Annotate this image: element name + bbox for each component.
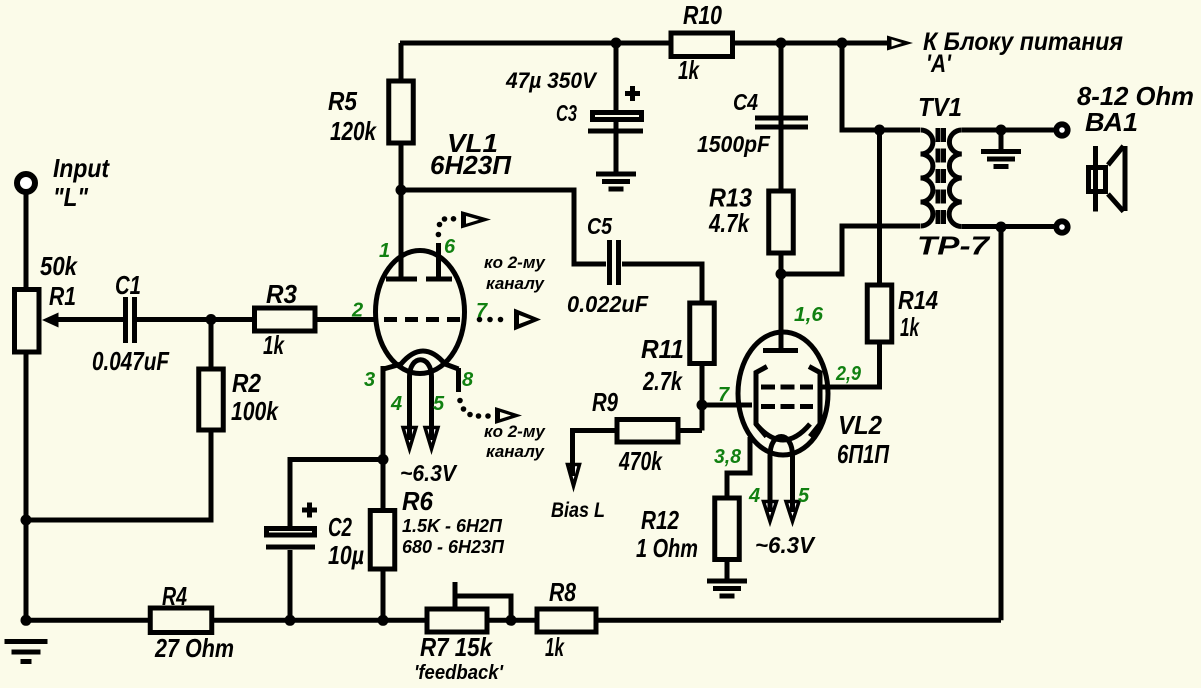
node ground left	[21, 615, 32, 626]
resistor R6	[370, 511, 395, 570]
node rail-C4	[776, 38, 787, 49]
svg-text:7: 7	[718, 384, 730, 406]
VL1 heater arrow pin5	[425, 428, 438, 450]
VL1 heater bump	[410, 360, 432, 377]
VL1 pin8 dots	[457, 398, 491, 419]
transformer TV1 primary winding	[921, 130, 933, 226]
svg-text:1k: 1k	[263, 330, 285, 360]
svg-text:470k: 470k	[618, 446, 663, 476]
VL2 heater bump	[770, 437, 793, 457]
VL2 cathode	[756, 424, 810, 440]
svg-text:100k: 100k	[231, 396, 279, 426]
resistor R7 trimmer body	[427, 609, 487, 632]
capacitor C1 plates	[126, 297, 135, 343]
node secondary top ground	[996, 125, 1007, 136]
transformer TV1 core dashed lines	[938, 128, 944, 228]
svg-text:27 Ohm: 27 Ohm	[154, 633, 234, 663]
speaker terminal top	[1056, 124, 1067, 135]
svg-text:7: 7	[476, 300, 488, 322]
wire R12 to ground	[725, 559, 730, 580]
wire feedback vertical	[999, 227, 1004, 620]
svg-text:~6.3V: ~6.3V	[400, 460, 458, 486]
svg-text:1k: 1k	[545, 632, 565, 662]
VL1 grid exit arrow to 2nd channel	[514, 309, 541, 331]
svg-text:R1: R1	[49, 281, 76, 311]
resistor R3	[255, 308, 316, 331]
speaker BA1 horn	[1108, 146, 1125, 212]
svg-text:VL2: VL2	[838, 410, 882, 440]
svg-text:50k: 50k	[40, 251, 78, 281]
wire input to R1 to ground	[24, 193, 29, 620]
wire VL2 anode feed	[779, 274, 784, 350]
VL1 cathode	[384, 351, 459, 369]
ground below C3	[596, 174, 636, 189]
svg-text:R9: R9	[592, 387, 618, 417]
tube VL1 envelope	[376, 251, 465, 374]
wire rail to primary top	[842, 43, 920, 130]
wire R14 top	[877, 130, 882, 283]
svg-text:2: 2	[351, 300, 363, 322]
svg-text:1: 1	[379, 240, 390, 262]
node C2 bottom	[285, 615, 296, 626]
node VL1 anode	[396, 185, 407, 196]
VL1 pin6 dots	[436, 216, 457, 237]
node VL2 grid	[697, 400, 708, 411]
svg-text:R10: R10	[683, 0, 722, 30]
resistor R9	[617, 420, 678, 443]
VL1 grid exit dots	[477, 317, 504, 323]
VL1 grid dashed line	[384, 317, 463, 322]
node secondary bottom feedback	[996, 222, 1007, 233]
VL2 control grid dashes row2	[761, 404, 813, 409]
ground secondary top	[981, 152, 1021, 167]
svg-text:3: 3	[364, 369, 375, 391]
VL2 heater pin5 shaft	[790, 456, 795, 511]
svg-text:4: 4	[390, 393, 402, 415]
wire secondary top to terminal	[962, 128, 1055, 133]
VL1 heater pin5 shaft	[429, 377, 434, 440]
svg-text:Input: Input	[53, 153, 110, 183]
resistor R10	[671, 33, 733, 57]
wire VL1 pin3 cathode down	[381, 366, 386, 460]
svg-text:R5: R5	[328, 86, 357, 116]
svg-text:2,9: 2,9	[835, 363, 862, 385]
VL1 anode plate pin1	[386, 277, 417, 282]
VL2 anode plate	[763, 348, 798, 353]
capacitor C2 bottom plate	[266, 545, 315, 550]
svg-text:120k: 120k	[330, 116, 377, 146]
svg-text:4.7k: 4.7k	[708, 208, 750, 238]
bias arrow	[568, 465, 580, 487]
node rail-TV1	[837, 38, 848, 49]
speaker BA1 box	[1089, 168, 1106, 192]
svg-text:1500pF: 1500pF	[697, 131, 771, 157]
VL1 heater pin4 shaft	[407, 377, 412, 440]
svg-text:3,8: 3,8	[714, 446, 742, 468]
capacitor C2 polarized top plate	[267, 529, 315, 536]
svg-text:10µ: 10µ	[328, 540, 364, 570]
wire secondary bottom to terminal	[962, 224, 1055, 229]
node rail-C3	[611, 38, 622, 49]
svg-text:К Блоку питания: К Блоку питания	[923, 28, 1123, 56]
wire VL1 pin6 anode	[436, 243, 441, 279]
svg-text:8: 8	[462, 369, 474, 391]
wire R13 junction to primary bottom	[781, 226, 920, 274]
input terminal circle	[17, 174, 35, 192]
VL1 heater shaft tips inside arrows	[410, 427, 432, 440]
svg-text:~6.3V: ~6.3V	[755, 532, 816, 558]
svg-text:C5: C5	[587, 213, 613, 239]
wire R6 branch	[381, 460, 386, 621]
svg-text:каналу: каналу	[486, 442, 546, 461]
wire R9 left to bias	[573, 431, 616, 465]
capacitor C3 plus sign	[625, 86, 640, 101]
svg-text:4: 4	[748, 485, 760, 507]
svg-text:1.5K - 6Н2П: 1.5K - 6Н2П	[402, 516, 503, 536]
svg-text:R11: R11	[641, 334, 684, 364]
svg-text:TP-7: TP-7	[917, 231, 991, 261]
wire anode VL1 to C5	[401, 190, 606, 264]
bias arrow shaft tip	[570, 464, 575, 476]
VL1 heater arrow pin4	[403, 428, 416, 450]
wire R1 wiper to C1	[54, 317, 123, 322]
svg-text:0.047uF: 0.047uF	[92, 346, 170, 376]
wire C4 R13 branch	[779, 43, 784, 274]
wire grid node to R9 right	[680, 405, 702, 431]
wire C5 to R11 to grid node	[622, 264, 702, 405]
node primary top	[874, 125, 885, 136]
resistor R14	[867, 285, 892, 342]
capacitor C4 plates	[755, 118, 808, 127]
svg-text:1k: 1k	[900, 312, 920, 342]
capacitor C2 plus sign	[302, 503, 317, 518]
svg-text:ВА1: ВА1	[1085, 107, 1138, 137]
resistor R11	[690, 303, 715, 364]
wire R2 branch	[26, 320, 211, 521]
wire R14 bottom to VL2 screen 2,9	[820, 344, 880, 387]
wire junction to C2	[290, 460, 383, 529]
node VL1 cathode junction	[378, 454, 389, 465]
VL1 pin8 stub	[456, 368, 461, 392]
wire R5 branch vertical	[399, 43, 404, 190]
wire VL1 pin1 anode	[399, 190, 404, 279]
svg-text:"L": "L"	[53, 182, 89, 212]
svg-text:R6: R6	[402, 486, 433, 516]
resistor R4	[150, 608, 212, 633]
svg-text:R14: R14	[898, 285, 938, 315]
resistor R5	[389, 81, 414, 143]
resistor R13	[769, 191, 794, 253]
transformer TV1 secondary winding	[949, 130, 962, 227]
VL1 anode plate pin6	[426, 277, 452, 282]
svg-text:5: 5	[433, 393, 445, 415]
svg-text:ко 2-му: ко 2-му	[484, 253, 546, 272]
resistor R8	[537, 609, 596, 632]
node R6 bottom	[378, 615, 389, 626]
svg-text:1k: 1k	[678, 55, 700, 85]
wire VL2 cathode 3,8 to R12	[727, 437, 750, 498]
resistor R2	[199, 369, 224, 430]
svg-text:C3: C3	[556, 100, 577, 126]
VL2 screen grid dashes row1	[761, 385, 813, 390]
wire C1 to R3	[137, 317, 254, 322]
svg-text:C2: C2	[328, 512, 352, 542]
svg-text:R8: R8	[549, 577, 576, 607]
node R13 bottom	[776, 269, 787, 280]
svg-text:1,6: 1,6	[794, 304, 824, 326]
wire R3 to VL1 grid pin2	[315, 317, 377, 322]
svg-text:TV1: TV1	[918, 92, 962, 122]
node R1-R2	[21, 515, 32, 526]
svg-text:680 - 6Н23П: 680 - 6Н23П	[402, 537, 505, 557]
wire top supply rail	[400, 41, 888, 46]
svg-text:6Н23П: 6Н23П	[430, 150, 512, 180]
svg-text:Bias L: Bias L	[551, 499, 605, 522]
wire ground stub secondary	[999, 130, 1004, 149]
capacitor C3 bottom plate	[588, 129, 643, 134]
node C1-R3-R2	[206, 314, 217, 325]
ground bottom left	[5, 642, 48, 662]
svg-text:R12: R12	[641, 505, 679, 535]
wire R7 wiper	[455, 582, 511, 620]
speaker terminal bottom	[1056, 221, 1067, 232]
svg-text:2.7k: 2.7k	[642, 366, 683, 396]
svg-text:C1: C1	[115, 270, 141, 300]
VL1 pin8 arrow to 2nd channel	[495, 407, 522, 424]
speaker BA1 coil line	[1093, 146, 1098, 212]
VL2 beam plate right	[809, 367, 820, 437]
svg-text:5: 5	[798, 485, 810, 507]
svg-text:R7 15k: R7 15k	[420, 632, 493, 662]
svg-text:R4: R4	[162, 581, 187, 611]
svg-text:0.022uF: 0.022uF	[567, 291, 649, 317]
svg-text:6П1П: 6П1П	[837, 439, 890, 469]
capacitor C5 plates	[610, 240, 619, 285]
svg-text:каналу: каналу	[486, 274, 546, 293]
svg-text:ко 2-му: ко 2-му	[484, 422, 546, 441]
VL2 heater shaft tips inside arrows	[770, 501, 793, 512]
resistor R12	[715, 498, 740, 560]
svg-text:'feedback': 'feedback'	[414, 662, 504, 684]
R1 wiper arrow	[42, 313, 59, 328]
ground below R12	[707, 581, 747, 596]
svg-text:R3: R3	[266, 279, 297, 309]
svg-text:R2: R2	[232, 368, 261, 398]
VL2 heater arrow pin5	[786, 502, 799, 522]
resistor R1 potentiometer body	[15, 290, 40, 353]
VL1 pin6 arrow to 2nd channel	[461, 211, 491, 229]
svg-text:47µ 350V: 47µ 350V	[505, 68, 598, 93]
VL2 beam plate left	[756, 367, 767, 437]
svg-text:1 Ohm: 1 Ohm	[636, 533, 698, 563]
svg-text:C4: C4	[733, 89, 758, 115]
tube VL2 envelope	[738, 332, 828, 455]
node R7 wiper	[506, 615, 517, 626]
svg-text:'А': 'А'	[926, 50, 952, 78]
wire C2 bottom	[288, 550, 293, 620]
VL2 heater arrow pin4	[764, 502, 777, 522]
wire grid node to VL2 pin7	[702, 403, 752, 408]
supply arrow К Блоку питания	[887, 36, 913, 51]
VL2 heater pin4 shaft	[768, 456, 773, 511]
wire bottom rail	[26, 618, 1001, 623]
svg-text:6: 6	[444, 236, 456, 258]
capacitor C3 polarized top plate	[593, 113, 642, 120]
wire C3 branch	[614, 43, 619, 172]
